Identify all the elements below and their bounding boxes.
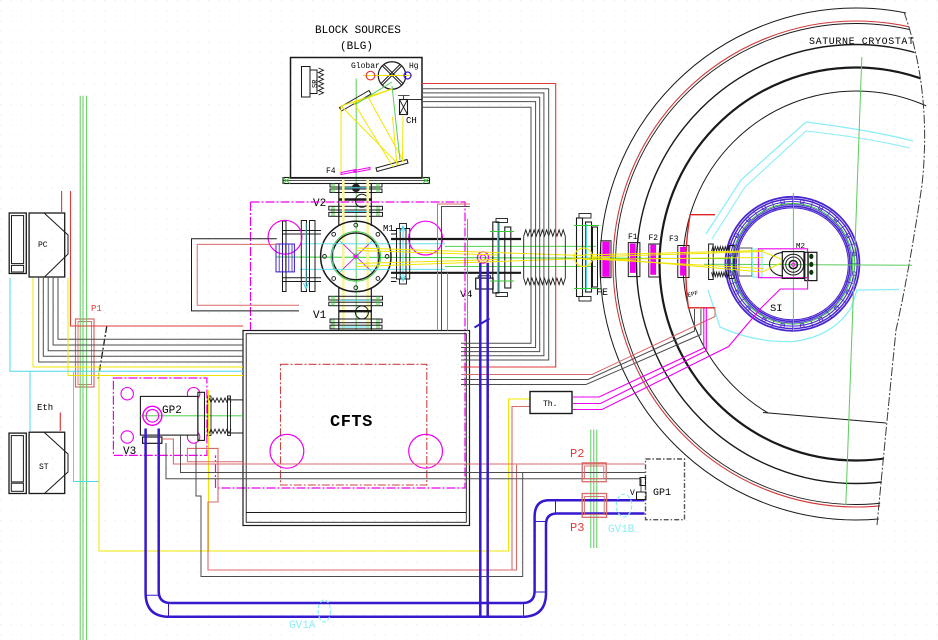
- flange stack A: [493, 219, 511, 297]
- chamber right arm tube stubs: [391, 231, 397, 282]
- Eth red wire: [59, 413, 61, 431]
- cryostat inner vessel bottom line: [763, 413, 886, 424]
- V1 cyan arrows: [339, 300, 371, 327]
- chamber vertical axis green: [355, 79, 357, 331]
- svg-text:V2: V2: [313, 198, 326, 210]
- thermal shield (cyan) lower polyline: [708, 290, 899, 342]
- PC workstation icon: [9, 213, 68, 277]
- svg-text:GV1A: GV1A: [289, 620, 316, 632]
- yellow wire A: [33, 278, 243, 367]
- red wire V3 valve to P2/GP1: [162, 439, 645, 464]
- V3 pipe valve body: [143, 437, 162, 443]
- svg-text:(BLG): (BLG): [340, 41, 373, 53]
- flange B yellow circle: [574, 248, 592, 266]
- V3 valve circle: [143, 406, 162, 425]
- ST workstation icon: [9, 432, 68, 493]
- yellow beam rays: [357, 248, 781, 272]
- cyan ethernet wire: [10, 278, 243, 431]
- CH wire: [408, 99, 423, 101]
- GP1 inlet valve: [637, 492, 647, 500]
- svg-text:BLOCK SOURCES: BLOCK SOURCES: [315, 25, 401, 37]
- blue pipe V3 down: [146, 429, 171, 617]
- yellow wire GP2 riser: [208, 390, 210, 551]
- flange stack B: [577, 214, 598, 302]
- M2 detector frame: [782, 252, 804, 279]
- svg-text:V1: V1: [313, 310, 327, 322]
- cyan beam envelope horizontal: [300, 244, 445, 269]
- red wires from PC: [61, 191, 63, 213]
- blue pipe to GP1: [549, 500, 645, 513]
- CFTS inner red dash-dot box: [281, 364, 427, 485]
- svg-text:GV1B: GV1B: [608, 524, 635, 536]
- svg-text:FE: FE: [596, 288, 608, 299]
- svg-text:P2: P2: [570, 447, 584, 461]
- flange B cyan line: [585, 224, 587, 291]
- flange A green marks: [490, 232, 514, 282]
- flange A cyan line: [497, 223, 499, 292]
- instrument boundary magenta dash-dot box: [216, 202, 466, 488]
- EPF red frame: [686, 215, 715, 308]
- svg-text:F4: F4: [326, 167, 336, 176]
- cryostat shell arc r196.5: [660, 68, 938, 461]
- blue pipe right riser: [522, 500, 557, 617]
- BLG support platform: [283, 178, 430, 184]
- svg-text:Th.: Th.: [543, 400, 557, 409]
- red wire loop chamber left: [197, 244, 299, 305]
- svg-text:GP2: GP2: [162, 405, 182, 417]
- gray wire bundle PC to CFTS: [39, 277, 243, 362]
- Hg lamp: [404, 72, 411, 79]
- red wire BLG to CFTS right: [422, 84, 556, 368]
- filter F4: [341, 168, 370, 175]
- M2 sensor block: [805, 252, 817, 280]
- cryostat shell arc r240.5: [616, 24, 938, 505]
- svg-text:GP1: GP1: [653, 488, 671, 499]
- gate valve V2: [329, 184, 383, 217]
- flange B green marks: [574, 226, 599, 289]
- svg-text:V3: V3: [123, 446, 136, 458]
- yellow rays in BLG: [341, 89, 404, 172]
- black wire pair CFTS to EPF: [461, 309, 695, 380]
- red wire GP2 loop to P2 feed: [187, 448, 517, 570]
- bellows: [524, 230, 566, 285]
- source selection wheel: [378, 62, 406, 90]
- pale yellow beam in tube: [343, 180, 367, 330]
- CFTS outer box: [243, 331, 470, 526]
- GV1B valve ellipse: [616, 494, 631, 517]
- V4 valve body: [476, 276, 493, 289]
- GP2 axis green: [140, 415, 243, 417]
- svg-text:Hg: Hg: [409, 62, 419, 71]
- Globar lamp: [366, 71, 375, 80]
- blue pipe V4 down: [480, 263, 487, 617]
- red wire GP2 short: [187, 448, 243, 461]
- yellow wire B (loop to Th): [68, 278, 530, 551]
- svg-text:Globar: Globar: [351, 62, 380, 71]
- svg-text:F1: F1: [628, 233, 638, 242]
- filter F3: [678, 246, 689, 278]
- chamber left arm tube: [283, 221, 322, 292]
- V4 pipe slash: [475, 319, 490, 328]
- red wire CFTS to EPF: [461, 308, 715, 375]
- bellows 2: [709, 244, 729, 280]
- svg-text:SR: SR: [312, 79, 320, 88]
- svg-text:CFTS: CFTS: [330, 413, 373, 432]
- svg-text:P3: P3: [570, 521, 584, 535]
- GP2 corner circles: [121, 388, 200, 444]
- valve V4 port circle: [477, 252, 488, 263]
- beam pipe inner lines green: [445, 246, 596, 266]
- GP2 pump body: [140, 396, 198, 435]
- right arm cyan arrow: [401, 226, 406, 281]
- chamber right arm flange: [397, 224, 410, 285]
- right port magenta circle: [409, 221, 443, 255]
- mirror M lower: [376, 160, 408, 172]
- GP2 flange plate: [198, 392, 205, 440]
- svg-text:SATURNE CRYOSTAT: SATURNE CRYOSTAT: [809, 37, 915, 48]
- feedthrough P2: [582, 463, 606, 482]
- CFTS port circle left: [270, 434, 304, 468]
- feedthrough P3: [582, 494, 606, 518]
- thermal shield (cyan) upper polyline: [706, 122, 913, 234]
- beam pipe heavy walls: [391, 239, 521, 273]
- SI window flange: [729, 246, 752, 279]
- chopper CH: [398, 96, 410, 115]
- cryostat axis green: [704, 264, 912, 265]
- V2 cyan arrows: [339, 188, 371, 212]
- GP2 bellows: [207, 396, 243, 436]
- GP2 magenta dash box: [113, 378, 206, 455]
- cryostat right edge: [877, 12, 925, 525]
- CFTS port circle right: [409, 434, 443, 468]
- black wire V3 to GP1 valve: [166, 443, 641, 493]
- patch panel P1: [76, 319, 95, 387]
- svg-text:V: V: [630, 489, 635, 498]
- green utility lines right: [591, 430, 597, 548]
- svg-text:M1: M1: [383, 224, 394, 234]
- wires right arm down to CFTS: [438, 204, 471, 331]
- left port magenta circle: [268, 220, 302, 254]
- M2 parabola mirror: [770, 253, 783, 276]
- svg-text:M2: M2: [796, 243, 805, 251]
- filter F1: [628, 243, 640, 277]
- svg-text:SI: SI: [770, 303, 783, 315]
- mirror M upper: [340, 91, 372, 112]
- green utility lines left: [80, 96, 86, 640]
- filter F2: [649, 244, 660, 277]
- svg-text:F3: F3: [669, 235, 679, 244]
- GP1 inlet port: [640, 478, 646, 486]
- cryostat inner shell arc r173: [683, 91, 938, 437]
- wheel axis yellow: [363, 75, 412, 77]
- wire bundle BLG to CFTS right: [422, 89, 549, 360]
- SI vertical axis green: [792, 193, 794, 331]
- beam axis green: [276, 257, 731, 259]
- BLG enclosure box: [291, 58, 423, 179]
- cryostat shell arc r256: [600, 8, 938, 520]
- thermometer box Th: [530, 392, 572, 414]
- gray wire loop GP2 to GP1: [196, 443, 523, 577]
- yellow tick: [68, 375, 243, 377]
- black wire GP2 to GP1: [181, 435, 646, 473]
- FE entrance window: [601, 241, 611, 278]
- left arm cyan arrow: [304, 223, 309, 289]
- blue pipe joint ticks: [146, 500, 556, 617]
- red wire Th sensor: [512, 407, 530, 571]
- vacuum chamber with M1: [321, 221, 391, 291]
- vertical beam tube walls: [339, 184, 372, 331]
- GV1A valve ellipse: [318, 600, 330, 622]
- svg-text:P1: P1: [91, 304, 102, 314]
- svg-text:V4: V4: [460, 289, 473, 301]
- svg-text:Eth: Eth: [37, 403, 53, 413]
- svg-text:ST: ST: [39, 463, 49, 472]
- blue pipe bottom run: [169, 603, 522, 617]
- M2 circles: [783, 254, 804, 275]
- black wire loop chamber left: [192, 239, 300, 311]
- P1 section slash: [98, 326, 107, 379]
- cryostat section line green: [846, 57, 862, 505]
- M2 magenta mount box: [758, 249, 807, 278]
- gate valve V1: [329, 296, 383, 329]
- cryostat shell arc r243: [613, 21, 938, 507]
- thermal shield (cyan) inner upper polyline: [712, 131, 910, 239]
- svg-text:PC: PC: [38, 241, 48, 250]
- svg-text:CH: CH: [406, 116, 417, 126]
- magenta wires Th to EPF/M2: [573, 308, 704, 397]
- left port detector (blue striped): [276, 244, 294, 272]
- cyan wire branch down: [74, 371, 99, 481]
- cryostat shell arc r219.5: [637, 45, 938, 484]
- green rays in BLG: [356, 82, 400, 160]
- pump GP1: [646, 459, 685, 520]
- SI sample chamber ring: [725, 196, 860, 331]
- SI window cyan: [753, 249, 763, 277]
- svg-text:F2: F2: [649, 234, 659, 243]
- SR source: [302, 67, 324, 98]
